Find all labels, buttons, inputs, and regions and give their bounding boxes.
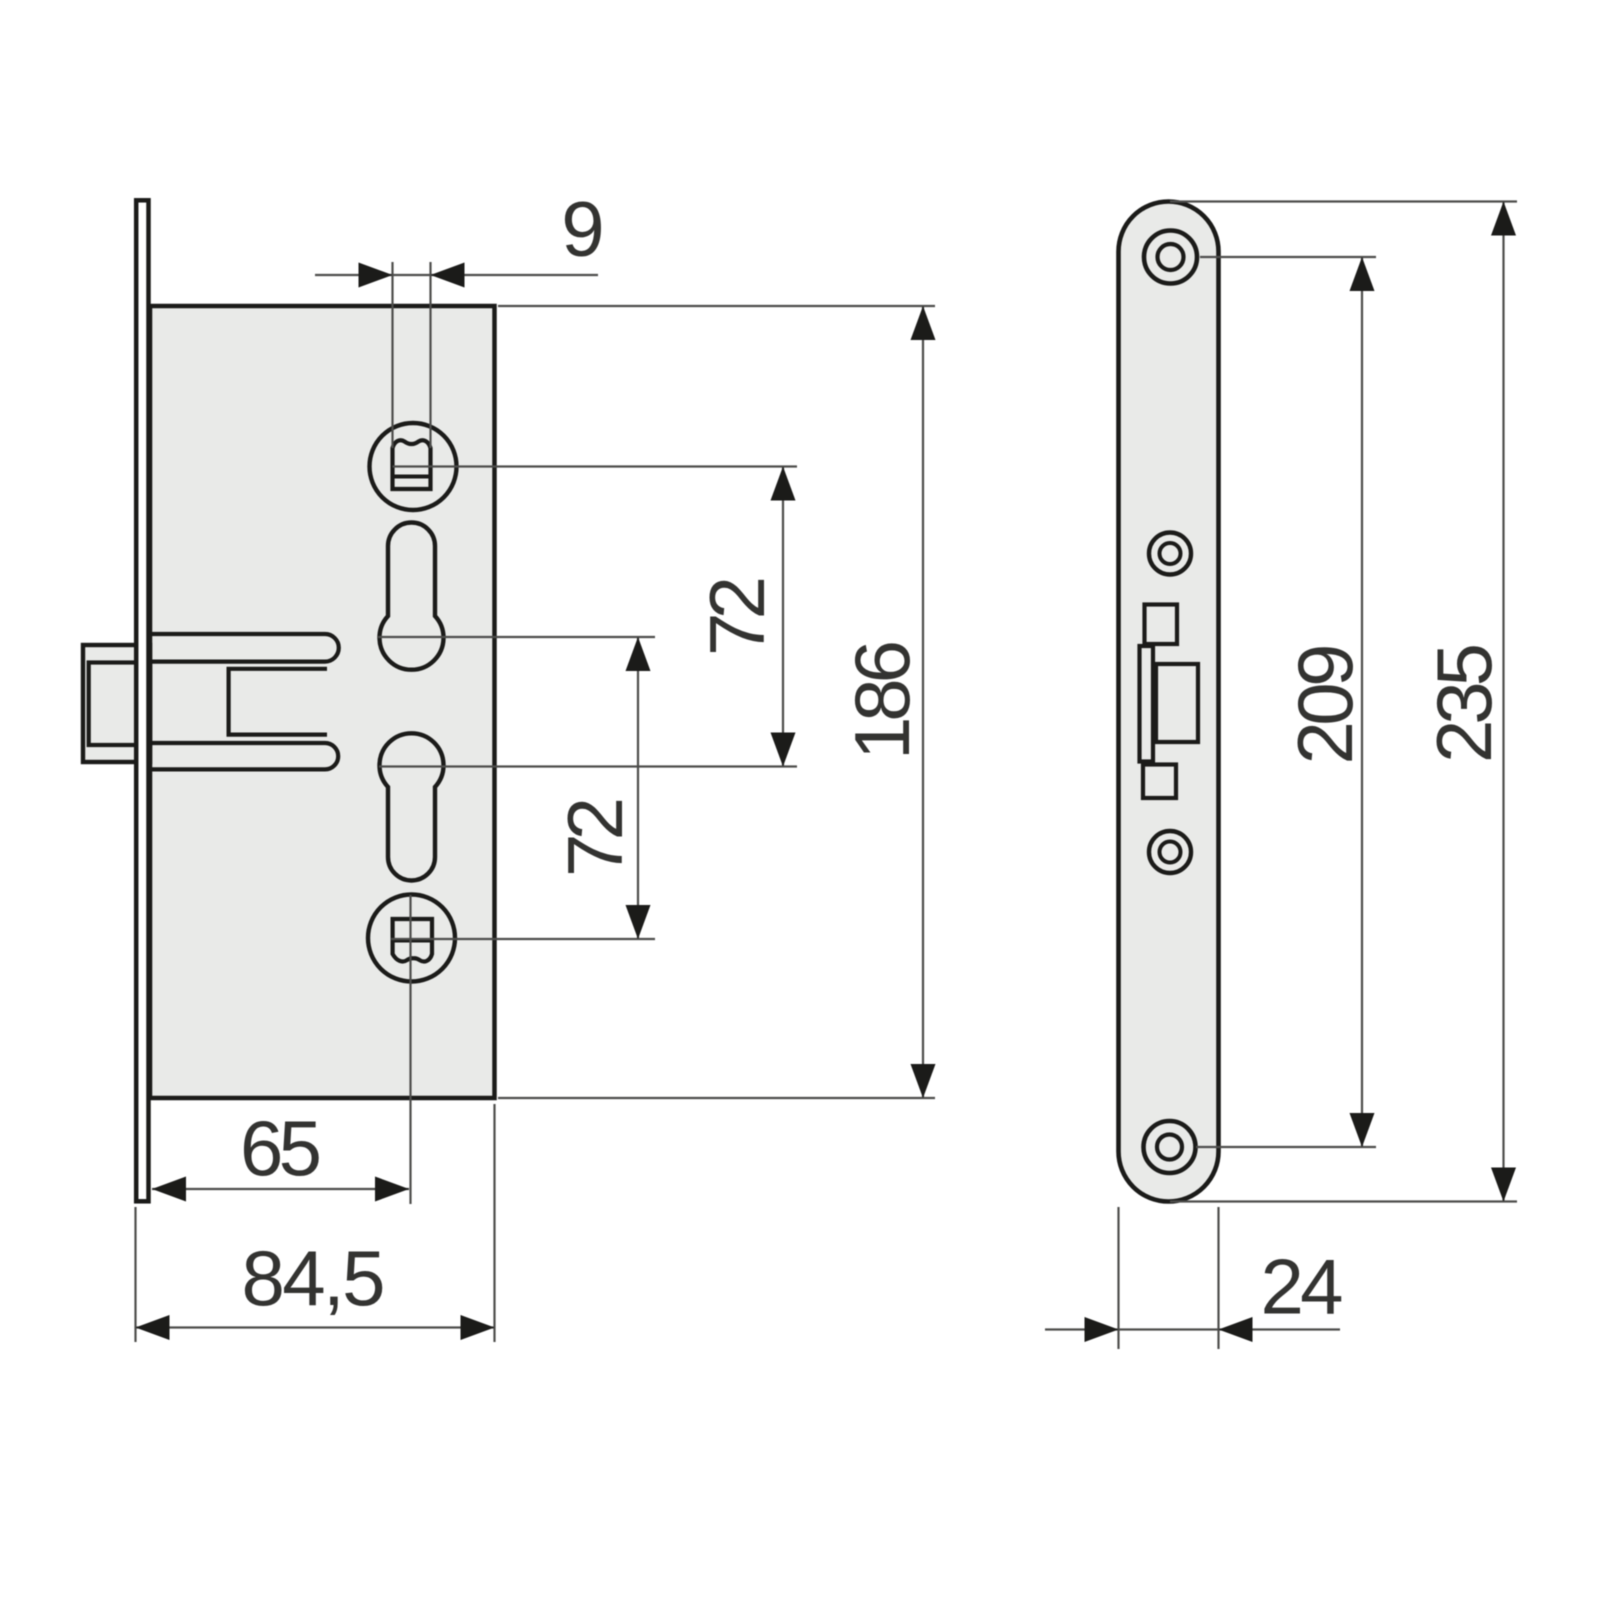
svg-text:9: 9: [561, 185, 604, 273]
follower square divider: [393, 475, 431, 479]
dimension right 72 line: [771, 467, 796, 767]
extension lines for 209: [1196, 257, 1376, 1147]
svg-text:72: 72: [693, 576, 781, 656]
dimension left 72 line: [626, 637, 651, 939]
extension lines for 9: [393, 262, 431, 448]
follower circle: [370, 423, 457, 510]
bottom slot (rounded cutout): [152, 743, 338, 769]
latch main rectangle: [1156, 664, 1198, 742]
U-shaped cutout: [229, 669, 327, 735]
spindle square hole: [393, 919, 432, 962]
lower profile cylinder hole: [380, 733, 444, 880]
extension lines for 235: [1170, 202, 1517, 1202]
svg-text:209: 209: [1281, 644, 1369, 765]
latch bottom square: [1143, 765, 1176, 799]
dimension 84,5 line: [136, 1315, 495, 1340]
top slot (rounded cutout): [152, 634, 339, 662]
spindle square divider: [393, 939, 432, 943]
follower square hole: [393, 440, 431, 489]
extension lines for 186: [498, 306, 935, 1098]
svg-text:84,5: 84,5: [242, 1234, 386, 1322]
dimension 65 line: [152, 1177, 409, 1202]
faceplate (side view): [136, 200, 148, 1201]
latch bolt inner bevel: [89, 663, 150, 746]
svg-text:72: 72: [551, 797, 639, 877]
svg-text:235: 235: [1420, 643, 1508, 763]
latch vertical bar: [1140, 646, 1154, 762]
upper profile cylinder hole: [380, 522, 444, 669]
latch bolt outer: [83, 645, 150, 762]
lock case body: [150, 306, 495, 1098]
svg-text:186: 186: [838, 640, 926, 760]
dimension 209 line: [1350, 257, 1375, 1147]
svg-text:65: 65: [240, 1104, 322, 1192]
latch top square: [1145, 605, 1178, 645]
dimension 9 line: [315, 263, 598, 288]
upper small hole: [1149, 533, 1191, 575]
extension lines for left 72: [378, 637, 655, 939]
dimension 186 line: [911, 306, 936, 1098]
extension lines for 24: [1119, 1207, 1219, 1349]
top screw hole: [1144, 231, 1197, 284]
dimension 24 line: [1045, 1317, 1340, 1342]
svg-text:24: 24: [1261, 1243, 1344, 1331]
dimension 235 line: [1491, 202, 1516, 1202]
spindle circle: [368, 895, 455, 982]
extension lines for 84,5: [136, 1104, 495, 1342]
faceplate front view plate: [1119, 202, 1219, 1202]
lower small hole: [1149, 831, 1191, 873]
extension line for 65 (spindle axis): [409, 895, 411, 1204]
bottom screw hole: [1144, 1121, 1196, 1173]
extension lines for right 72: [379, 467, 797, 767]
